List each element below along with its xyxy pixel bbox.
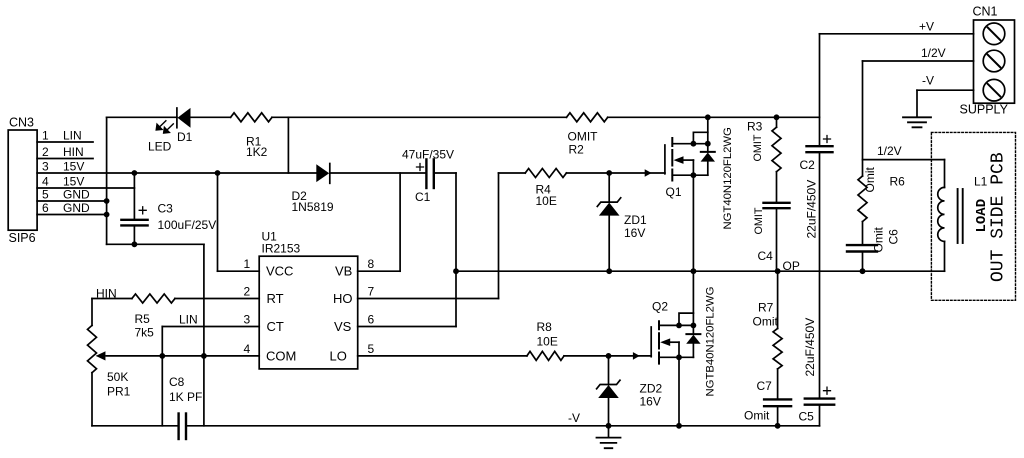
wire: D2 cathode to C1 left plate <box>330 172 425 174</box>
wire: VCC riser to 15V rail <box>217 173 219 271</box>
diode D2 cathode bar <box>329 164 331 184</box>
LED D1 light arrows <box>156 121 166 130</box>
capacitor C5 plus sign <box>824 387 831 394</box>
svg-text:4: 4 <box>42 175 49 189</box>
wire: 1/2V top wire to CN1 <box>863 60 974 62</box>
Q2 body diode cathode lead <box>692 325 694 334</box>
Q1 body diode bar <box>701 151 715 153</box>
CN3 pin 2 line <box>37 158 93 160</box>
svg-text:VB: VB <box>335 264 352 279</box>
node: -V rail / C7 <box>775 423 781 429</box>
node: +V rail / R3 <box>774 114 780 120</box>
node: OP / C6 <box>860 268 866 274</box>
capacitor C3 stub bottom <box>133 225 135 244</box>
svg-text:VCC: VCC <box>266 264 293 279</box>
svg-text:22uF/450V: 22uF/450V <box>805 180 819 239</box>
connector CN1 body <box>974 20 1015 103</box>
svg-text:1K2: 1K2 <box>246 145 268 159</box>
svg-text:C8: C8 <box>169 375 185 389</box>
wire: L1 top lead <box>944 160 946 188</box>
Q1 body diode triangle <box>701 153 715 162</box>
transistor Q2 drain stub <box>659 324 693 326</box>
wire: Q1 body to source <box>692 160 694 175</box>
transistor Q1 drain loop <box>693 132 707 143</box>
CN1 screw terminal 1 <box>983 23 1005 45</box>
capacitor C3 stub top <box>133 173 135 220</box>
svg-text:1: 1 <box>244 257 251 271</box>
Q1 gate signal arrow <box>645 169 652 177</box>
svg-text:R2: R2 <box>569 143 585 157</box>
wire: top LED wire segment <box>107 116 177 118</box>
node: LO wire / ZD2 <box>606 353 612 359</box>
resistor R8 <box>527 351 564 360</box>
wire: R2 to +V corner <box>608 116 820 118</box>
svg-text:8: 8 <box>368 257 375 271</box>
potentiometer PR1 bottom lead <box>91 373 93 426</box>
svg-text:4: 4 <box>244 342 251 356</box>
node: C3 bottom / gnd wire <box>132 241 138 247</box>
svg-text:ZD1: ZD1 <box>624 213 647 227</box>
svg-text:R3: R3 <box>747 120 763 134</box>
Q2 body diode triangle <box>686 335 700 344</box>
transistor Q1 drain stub <box>672 143 708 145</box>
svg-text:LED: LED <box>148 140 172 154</box>
resistor R1 <box>231 113 272 122</box>
node: OP / half-bridge <box>691 268 697 274</box>
wire: VS node vertical (C1 to OP rail dot) <box>455 173 457 271</box>
CN3 pin 6 line <box>37 214 107 216</box>
capacitor C2 plus sign <box>824 136 831 143</box>
node: OP / VS riser <box>453 268 459 274</box>
zener ZD1 bottom lead <box>608 216 610 272</box>
node: 15V rail / VCC riser <box>215 170 221 176</box>
svg-text:50K: 50K <box>107 370 128 384</box>
resistor R6 (Omit) <box>858 176 867 222</box>
wire: HO riser up to gate wire <box>498 173 500 299</box>
zener ZD1 cathode bar <box>597 198 620 207</box>
wire: R3 to C4 <box>776 172 778 203</box>
svg-text:HO: HO <box>333 291 353 306</box>
U1 pin names <box>266 264 353 364</box>
svg-text:R6: R6 <box>890 175 906 189</box>
wire: HIN corner down to PR1 top <box>91 299 93 326</box>
wire: -V top wire to CN1 <box>917 89 974 91</box>
svg-text:1/2V: 1/2V <box>921 46 946 60</box>
wire: C1 right plate to VS node vertical <box>434 172 456 174</box>
transistor Q1 channel bar (dashed) <box>671 138 673 181</box>
svg-text:C1: C1 <box>415 190 431 204</box>
wire: U1 pin7 HO stub <box>358 298 499 300</box>
wire: LED anode to R1 <box>191 116 231 118</box>
svg-text:CN3: CN3 <box>9 116 34 130</box>
wire: L1 bottom lead to OP rail <box>944 241 946 271</box>
wire: Q2 body to source <box>678 342 680 357</box>
svg-text:6: 6 <box>368 313 375 327</box>
svg-text:5: 5 <box>368 342 375 356</box>
zener ZD2 top lead <box>608 356 610 385</box>
wire: OP rail <box>456 270 945 272</box>
svg-text:16V: 16V <box>624 226 645 240</box>
wire: 15V rail (CN3 pin3 to D2 anode) <box>37 172 316 174</box>
potentiometer PR1 wiper arrow <box>97 352 106 359</box>
capacitor C3 plus sign <box>139 207 146 214</box>
svg-text:100uF/25V: 100uF/25V <box>158 218 217 232</box>
svg-text:CT: CT <box>267 319 284 334</box>
svg-text:HIN: HIN <box>96 286 117 300</box>
Q2 gate signal arrow <box>633 352 640 360</box>
svg-text:1N5819: 1N5819 <box>292 200 334 214</box>
ground symbol (-V rail) <box>608 426 610 438</box>
node: CN3 pin6 gnd <box>104 212 110 218</box>
svg-text:-V: -V <box>922 74 934 88</box>
inductor L1 coil <box>938 187 945 241</box>
svg-text:OMIT: OMIT <box>753 207 765 234</box>
capacitor C7 bottom lead <box>777 406 779 426</box>
svg-text:Omit: Omit <box>744 409 770 423</box>
CN3 pin 4 line <box>37 187 134 189</box>
svg-text:10E: 10E <box>537 335 558 349</box>
node: -V rail / ZD2 anode <box>606 423 612 429</box>
svg-text:2: 2 <box>244 285 251 299</box>
node: Q1 drain right <box>705 141 711 147</box>
svg-text:15V: 15V <box>63 175 84 189</box>
transistor Q2 source stub <box>659 356 693 358</box>
ground symbol (supply) <box>903 117 931 127</box>
wire: HO gate wire to R4 <box>499 172 526 174</box>
svg-text:47uF/35V: 47uF/35V <box>402 148 454 162</box>
transistor Q1 source stub <box>672 174 708 176</box>
resistor R3 top lead <box>776 117 778 127</box>
capacitor C5 plates <box>805 397 834 399</box>
svg-text:ZD2: ZD2 <box>640 382 663 396</box>
node: Q2 source <box>676 354 682 360</box>
svg-text:5: 5 <box>42 188 49 202</box>
svg-text:GND: GND <box>63 201 90 215</box>
capacitor C8 plates <box>177 414 179 440</box>
wire: gnd vertical to COM and -V rail <box>203 244 205 425</box>
zener ZD2 cathode bar <box>597 380 620 389</box>
svg-text:C3: C3 <box>158 202 174 216</box>
svg-text:6: 6 <box>42 201 49 215</box>
zener ZD2 bottom lead <box>608 398 610 426</box>
node: Q1 source <box>691 172 697 178</box>
svg-text:10E: 10E <box>536 194 557 208</box>
capacitor C6 plates <box>847 244 877 246</box>
wire: U1 pin2 RT wire to R5 <box>175 298 259 300</box>
potentiometer PR1 resistor body <box>88 325 97 372</box>
wire: LIN vertical down to bottom rail <box>161 327 163 426</box>
wire: U1 pin1 VCC stub <box>218 270 260 272</box>
svg-text:NGT40N120FL2WG: NGT40N120FL2WG <box>722 127 734 229</box>
wire: U1 pin8 VB stub <box>358 270 400 272</box>
transistor Q1 body stub with arrow <box>683 159 693 161</box>
connector CN3 body <box>8 130 37 230</box>
IC U1 body <box>259 256 358 369</box>
svg-text:OP: OP <box>783 259 800 273</box>
wire: -V stub down to ground <box>916 90 918 116</box>
CN1 screw terminal 3 <box>983 79 1005 101</box>
svg-text:RT: RT <box>267 291 284 306</box>
node: Q2 drain right <box>691 323 697 329</box>
svg-text:1K PF: 1K PF <box>169 390 202 404</box>
wire: C5 bottom to -V rail corner <box>819 405 821 426</box>
inductor L1 core lines <box>957 189 959 243</box>
svg-text:-V: -V <box>568 411 580 425</box>
wire: bottom rail left of C8 (PR1 bottom) <box>92 425 179 427</box>
capacitor C1 plates <box>425 159 427 188</box>
svg-text:C4: C4 <box>758 249 774 263</box>
svg-text:3: 3 <box>244 313 251 327</box>
capacitor C4 bottom lead to OP <box>776 208 778 271</box>
node: OP / C4 <box>775 268 781 274</box>
svg-text:HIN: HIN <box>63 145 84 159</box>
wire: 1/2V to load top <box>863 159 945 161</box>
svg-text:OMIT: OMIT <box>752 134 764 161</box>
svg-text:C5: C5 <box>799 410 815 424</box>
wire: R4 to Q1 gate <box>566 172 665 174</box>
svg-text:Omit: Omit <box>753 315 779 329</box>
svg-text:COM: COM <box>266 349 296 364</box>
Q1 body diode cathode lead <box>707 144 709 152</box>
Q2 body diode anode lead <box>692 344 694 358</box>
svg-text:SIP6: SIP6 <box>9 231 36 245</box>
resistor R4 <box>525 169 566 178</box>
svg-text:+V: +V <box>919 20 934 34</box>
resistor R7 top lead <box>777 271 779 328</box>
svg-text:NGTB40N120FL2WG: NGTB40N120FL2WG <box>705 287 717 397</box>
wire: riser from top wire down to 15V rail at x=288.4 <box>287 117 289 173</box>
node: CN3 pin5 gnd <box>104 198 110 204</box>
svg-text:OMIT: OMIT <box>568 130 599 144</box>
wire: U1 pin6 VS stub <box>358 326 456 328</box>
svg-text:Omit: Omit <box>863 167 877 193</box>
Q1 body diode anode lead <box>707 162 709 176</box>
svg-text:LIN: LIN <box>63 129 82 143</box>
dashed box OUT SIDE PCB <box>931 132 1015 300</box>
svg-text:OUT SIDE PCB: OUT SIDE PCB <box>989 152 1009 282</box>
wire: +V top wire to CN1 <box>820 33 974 35</box>
transistor Q1 gate bar <box>664 145 666 174</box>
svg-text:Q1: Q1 <box>666 185 682 199</box>
transistor Q2 drain loop <box>679 313 693 325</box>
wire: +V rail down to Q1 drain <box>707 117 709 143</box>
svg-text:7k5: 7k5 <box>135 326 155 340</box>
CN3 pin 1 line <box>37 141 93 143</box>
svg-text:VS: VS <box>334 319 352 334</box>
wire: +V corner riser (C2/C5 column top) <box>819 34 821 146</box>
svg-text:IR2153: IR2153 <box>262 242 301 256</box>
node: wiper / gnd vertical <box>201 353 207 359</box>
svg-text:LO: LO <box>330 349 347 364</box>
wire: half-bridge vertical Q1 source to OP rail to Q2 drain <box>692 175 694 325</box>
node: +V rail / Q1 drain <box>705 114 711 120</box>
wire: VB riser to rail <box>399 173 401 271</box>
transistor Q2 gate bar <box>650 327 652 357</box>
node: OP / ZD1 anode <box>606 268 612 274</box>
node: gate wire / ZD1 <box>606 170 612 176</box>
transistor Q2 channel bar (dashed) <box>658 321 660 363</box>
svg-text:3: 3 <box>42 160 49 174</box>
node: wiper / LIN vertical <box>159 353 165 359</box>
diode D2 triangle <box>316 164 329 182</box>
CN3 pin 5 line <box>37 200 107 202</box>
capacitor C3 plates <box>121 219 147 221</box>
zener ZD1 triangle <box>599 203 620 216</box>
svg-text:1/2V: 1/2V <box>877 144 902 158</box>
svg-text:Q2: Q2 <box>652 300 668 314</box>
capacitor C4 plates <box>764 202 790 204</box>
svg-text:D1: D1 <box>177 130 193 144</box>
transistor Q2 body stub with arrow <box>670 341 679 343</box>
wire: -V bottom rail (C8 to C5 corner) <box>186 425 820 427</box>
node: -V rail / Q2 source <box>676 423 682 429</box>
wire: R1 to R2 along top rail <box>272 116 567 118</box>
LED D1 triangle <box>178 108 191 128</box>
wire: HIN wire to R5 <box>92 298 132 300</box>
wire: R7 to C7 <box>777 369 779 400</box>
wire: R6 to C6 <box>862 222 864 246</box>
wire: 1/2V riser (R6 column top) <box>862 61 864 176</box>
zener ZD2 triangle <box>598 385 619 398</box>
wire: LIN wire to U1 pin3 CT <box>162 326 259 328</box>
wire: bottom gnd wire <box>107 243 204 245</box>
wire: VS riser to OP node <box>455 271 457 326</box>
svg-text:LIN: LIN <box>179 312 198 326</box>
svg-text:2: 2 <box>42 145 49 159</box>
svg-text:SUPPLY: SUPPLY <box>960 103 1009 117</box>
Q2 body diode bar <box>686 333 700 335</box>
wire: Q2 source down to -V rail <box>678 357 680 426</box>
svg-text:15V: 15V <box>63 160 84 174</box>
capacitor C2 plates <box>807 145 833 147</box>
svg-text:R5: R5 <box>135 312 151 326</box>
svg-text:PR1: PR1 <box>107 385 131 399</box>
svg-text:C7: C7 <box>757 379 773 393</box>
capacitor C6 bottom lead to OP <box>862 252 864 272</box>
zener ZD1 top lead <box>608 173 610 202</box>
wire: U1 pin5 LO stub to R8 <box>358 355 527 357</box>
LED D1 cathode bar <box>176 108 178 128</box>
svg-text:CN1: CN1 <box>973 5 998 19</box>
resistor R3 (OMIT) <box>772 127 781 172</box>
svg-text:L1: L1 <box>974 175 988 189</box>
node: Q2 drain left <box>676 323 682 329</box>
node: 15V rail / C3 <box>132 170 138 176</box>
svg-text:7: 7 <box>368 285 375 299</box>
resistor R5 <box>132 294 175 303</box>
svg-text:1: 1 <box>42 129 49 143</box>
CN1 screw terminal 2 <box>983 50 1005 72</box>
wire: wiper/COM wire to U1 pin4 <box>107 355 260 357</box>
svg-text:C6: C6 <box>887 229 901 245</box>
capacitor C7 plates <box>764 398 791 400</box>
svg-text:22uF/450V: 22uF/450V <box>803 318 817 377</box>
capacitor C1 plus sign <box>417 164 424 171</box>
svg-text:R8: R8 <box>537 320 553 334</box>
resistor R2 (OMIT) <box>567 113 608 122</box>
wire: C2 bottom down to C5 top (crosses OP rail) <box>819 152 821 398</box>
resistor R7 (Omit) <box>773 329 782 369</box>
wire: R8 to Q2 gate <box>564 355 651 357</box>
node: Q1 drain left <box>691 141 697 147</box>
svg-text:Omit: Omit <box>872 227 886 253</box>
wire: GND vertical from LED wire down to bottom gnd wire <box>106 117 108 244</box>
svg-text:GND: GND <box>63 188 90 202</box>
svg-text:LOAD: LOAD <box>974 199 990 233</box>
svg-text:16V: 16V <box>640 395 661 409</box>
svg-text:R7: R7 <box>758 301 774 315</box>
svg-text:C2: C2 <box>800 158 816 172</box>
